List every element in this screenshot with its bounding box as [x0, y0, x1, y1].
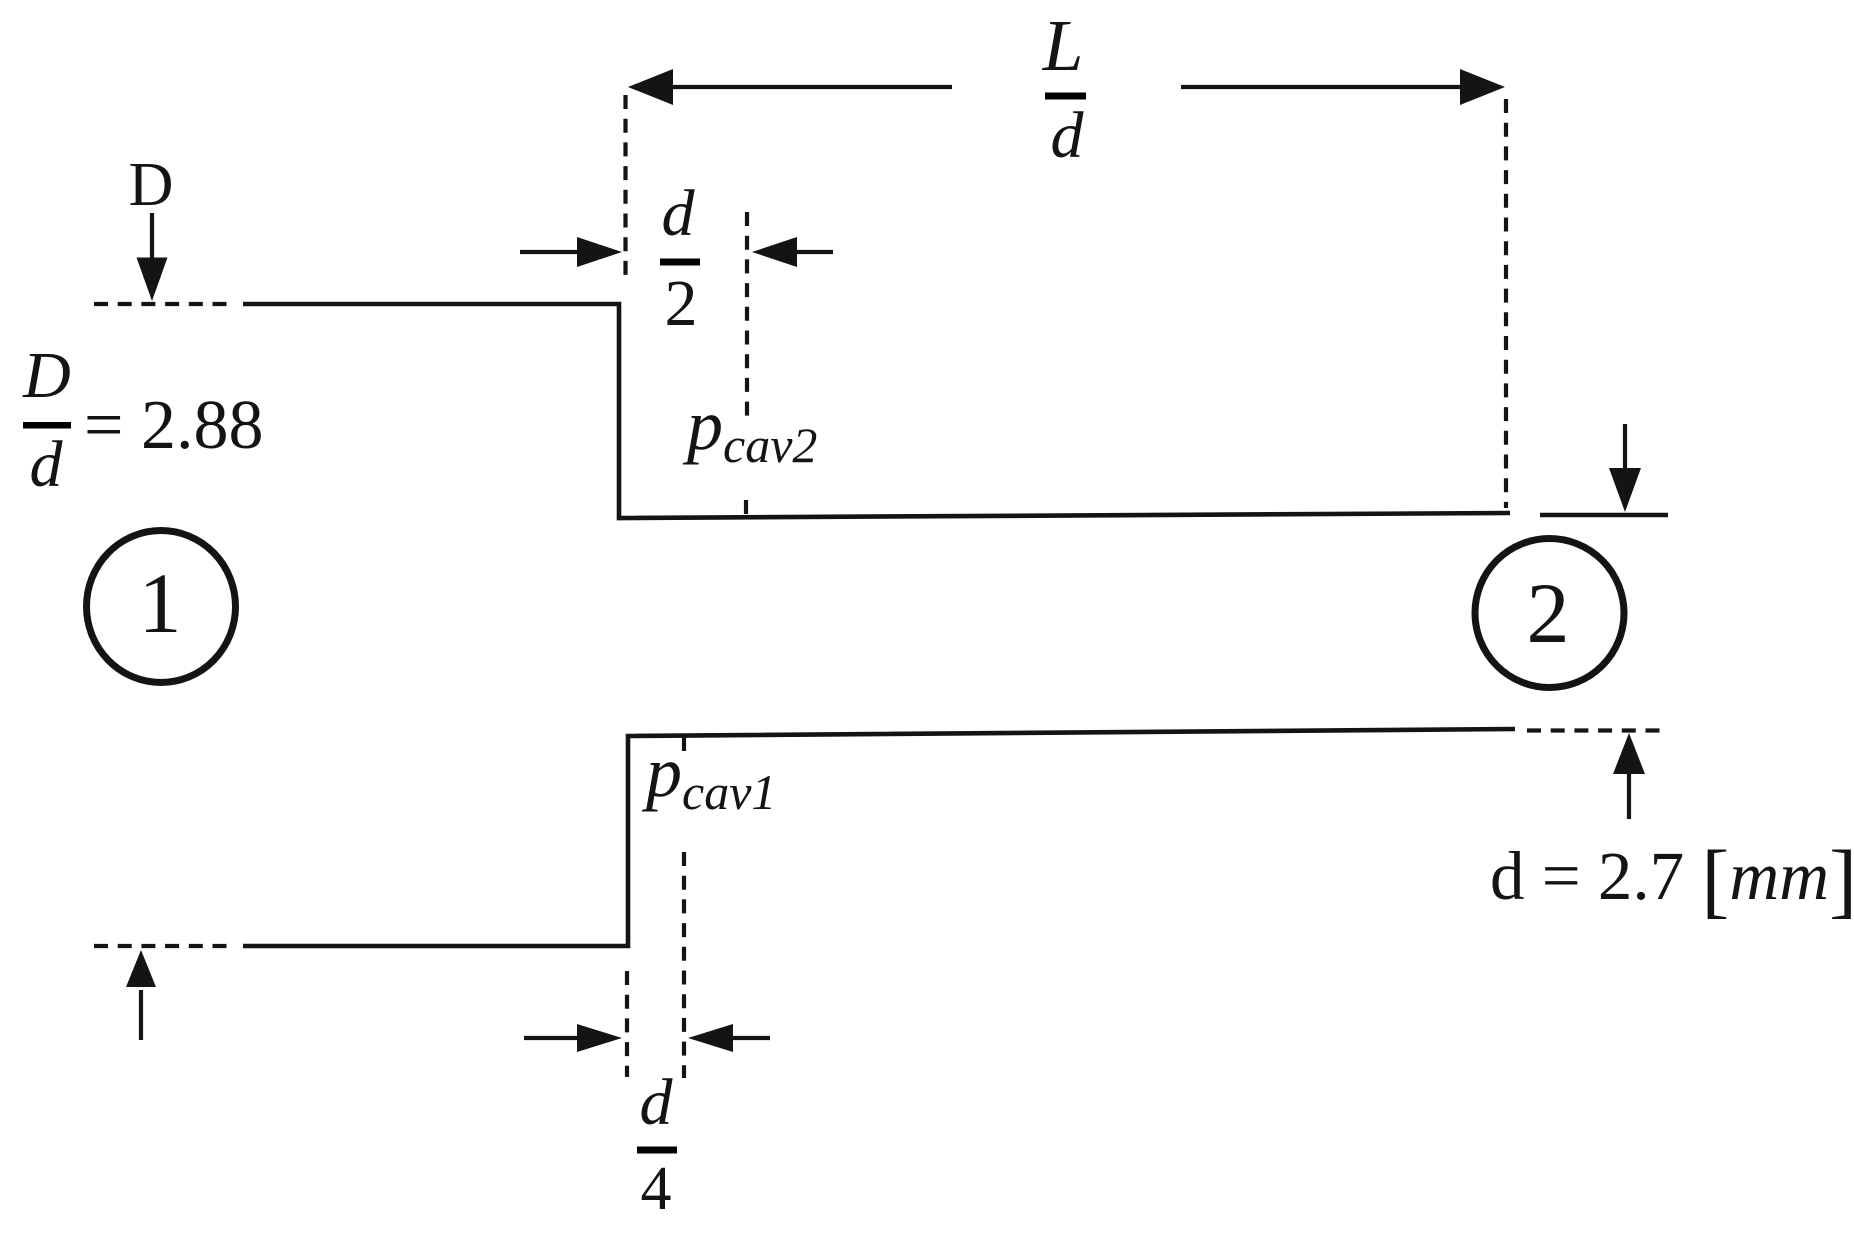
- arrowhead L/d right: [1460, 69, 1505, 105]
- dashed extension line x=747 for pcav2: [745, 212, 749, 417]
- down arrow stem at exit d dimension: [1623, 424, 1627, 470]
- up arrow stem at exit d dimension: [1627, 772, 1631, 819]
- dashed continuation of bottom wall to exit: [1527, 728, 1666, 732]
- svg-text:d: d: [662, 177, 696, 250]
- svg-text:1: 1: [139, 555, 182, 651]
- svg-text:2: 2: [1527, 565, 1570, 661]
- arrowhead exit d down: [1609, 468, 1641, 512]
- d/2 dimension right arrow stem: [795, 250, 833, 254]
- dashed extension line x=627 below bottom step: [625, 971, 629, 1077]
- station circle 2: [1475, 539, 1624, 688]
- svg-text:d: d: [640, 1066, 674, 1139]
- dashed extension line at exit x=1506: [1504, 99, 1508, 508]
- svg-text:D: D: [22, 339, 71, 412]
- svg-text:L: L: [1042, 5, 1084, 86]
- fraction bar d/4: [637, 1147, 677, 1154]
- arrowhead d/2 left (points right): [577, 237, 622, 267]
- up arrow stem bottom-left D dimension: [139, 990, 143, 1040]
- arrow stem for D label: [150, 213, 154, 262]
- dashed centerline bottom-left y=946: [94, 944, 233, 948]
- svg-text:d: d: [1051, 99, 1085, 172]
- dashed extension line x=684 for pcav1: [682, 852, 686, 1078]
- svg-text:d = 2.7 [mm]: d = 2.7 [mm]: [1490, 834, 1854, 927]
- dashed tick above top wall x=746: [744, 500, 748, 514]
- arrowhead d/4 left (points right): [577, 1024, 622, 1052]
- d/4 dimension left arrow stem: [524, 1036, 580, 1040]
- svg-text:= 2.88: = 2.88: [84, 387, 263, 464]
- svg-text:d: d: [30, 428, 64, 501]
- arrowhead d/4 right (points left): [688, 1024, 733, 1052]
- d/4 dimension right arrow stem: [733, 1036, 770, 1040]
- arrowhead bottom-left up: [126, 950, 156, 987]
- bottom wall profile with step: [243, 729, 1515, 946]
- dashed extension line at step x=625: [623, 95, 627, 278]
- arrowhead d/2 right (points left): [752, 237, 797, 267]
- arrowhead D label down: [137, 258, 168, 302]
- arrowhead L/d left: [628, 69, 673, 105]
- svg-text:2: 2: [665, 267, 698, 340]
- dashed tick below bottom wall x=684: [682, 737, 686, 751]
- svg-text:D: D: [129, 151, 174, 219]
- fraction bar L/d: [1045, 93, 1086, 100]
- d/2 dimension left arrow stem: [520, 250, 580, 254]
- dimension line L/d left segment: [671, 85, 952, 89]
- dashed centerline top-left y=304: [94, 302, 233, 306]
- short datum line right of exit: [1540, 513, 1668, 518]
- station circle 1: [87, 531, 236, 683]
- fraction bar d/2: [660, 259, 700, 266]
- dimension line L/d right segment: [1181, 85, 1462, 89]
- svg-text:4: 4: [641, 1155, 672, 1223]
- arrowhead exit d up: [1613, 733, 1645, 774]
- fraction bar D/d: [23, 422, 71, 429]
- top wall profile with step: [243, 304, 1510, 518]
